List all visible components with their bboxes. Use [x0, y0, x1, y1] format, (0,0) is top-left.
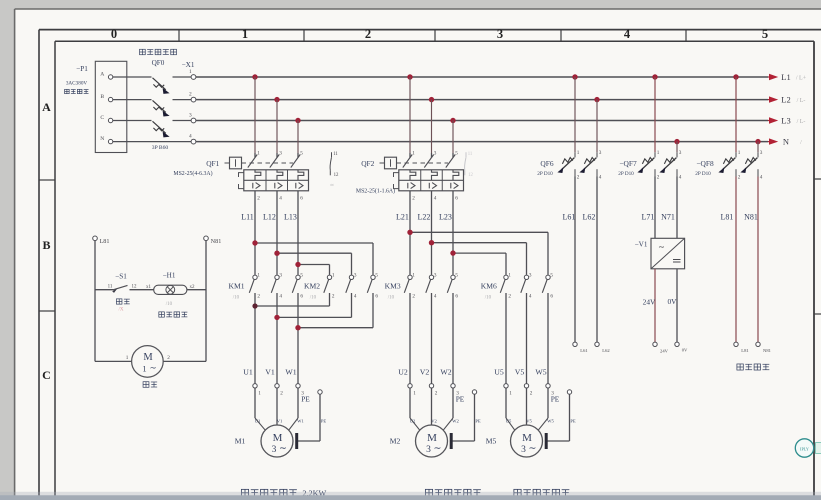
svg-text:C: C: [42, 368, 51, 382]
svg-text:12: 12: [468, 173, 473, 178]
svg-text:1: 1: [258, 390, 261, 396]
svg-text:V1: V1: [277, 419, 283, 424]
svg-text:3: 3: [521, 445, 526, 455]
svg-text:W1: W1: [285, 368, 296, 377]
svg-text:L11: L11: [241, 213, 254, 222]
svg-text:∼: ∼: [434, 444, 442, 454]
svg-text:3: 3: [599, 150, 602, 156]
svg-text:6: 6: [550, 294, 553, 300]
svg-text:V2: V2: [431, 419, 437, 424]
svg-text:6: 6: [375, 294, 378, 300]
svg-text:PE: PE: [551, 395, 560, 404]
svg-text:1: 1: [126, 355, 129, 361]
svg-text:3: 3: [272, 445, 277, 455]
svg-text:3: 3: [426, 445, 431, 455]
svg-text:V5: V5: [526, 419, 532, 424]
svg-text:4: 4: [189, 133, 192, 139]
svg-text:U2: U2: [410, 419, 416, 424]
svg-text:3: 3: [189, 112, 192, 118]
svg-text:W2: W2: [452, 419, 459, 424]
svg-text:L61: L61: [563, 213, 576, 222]
svg-text:A: A: [42, 100, 51, 114]
svg-text:/ L-: / L-: [797, 98, 806, 104]
svg-text:/10: /10: [310, 296, 317, 301]
svg-text:U5: U5: [494, 368, 504, 377]
svg-text:U2: U2: [398, 368, 408, 377]
svg-text:3: 3: [434, 151, 437, 157]
svg-text:0V: 0V: [682, 348, 688, 353]
svg-text:2: 2: [257, 294, 260, 300]
svg-text:QF6: QF6: [540, 159, 553, 168]
svg-text:B: B: [42, 238, 50, 252]
svg-text:W5: W5: [535, 368, 546, 377]
svg-text:PE: PE: [301, 395, 310, 404]
svg-text:5: 5: [550, 272, 553, 278]
svg-text:M: M: [143, 352, 153, 363]
svg-text:3: 3: [529, 272, 532, 278]
svg-text:2P D10: 2P D10: [695, 171, 711, 177]
svg-text:3: 3: [497, 27, 503, 41]
svg-text:5: 5: [455, 272, 458, 278]
svg-text:1: 1: [412, 272, 415, 278]
svg-text:−X1: −X1: [182, 61, 195, 69]
svg-text:4: 4: [434, 294, 437, 300]
svg-text:2: 2: [167, 355, 170, 361]
svg-text:W1: W1: [297, 419, 304, 424]
svg-text:L21: L21: [396, 213, 409, 222]
svg-text:L12: L12: [263, 213, 276, 222]
svg-text:L23: L23: [439, 213, 452, 222]
svg-text:L22: L22: [418, 213, 431, 222]
svg-text:L61: L61: [580, 348, 588, 353]
svg-text:A: A: [100, 71, 104, 77]
svg-text:3: 3: [760, 150, 763, 156]
svg-text:/X: /X: [119, 308, 124, 313]
svg-text:L62: L62: [583, 213, 596, 222]
svg-text:∼: ∼: [658, 243, 665, 252]
svg-text:L13: L13: [284, 213, 297, 222]
svg-text:4: 4: [599, 175, 602, 181]
svg-text:11: 11: [108, 285, 113, 290]
svg-text:/ L-: / L-: [797, 119, 806, 125]
svg-text:/10: /10: [166, 302, 173, 307]
svg-text:KM1: KM1: [228, 282, 244, 291]
svg-text:2: 2: [280, 390, 283, 396]
svg-text:PE: PE: [475, 419, 481, 424]
svg-text:U1: U1: [243, 368, 253, 377]
svg-text:1: 1: [657, 150, 660, 156]
svg-text:V2: V2: [420, 368, 430, 377]
svg-text:N: N: [100, 136, 104, 142]
svg-text:2: 2: [189, 91, 192, 97]
svg-text:1: 1: [508, 272, 511, 278]
svg-text:1: 1: [142, 364, 146, 374]
svg-text:−QF8: −QF8: [696, 159, 714, 168]
svg-text:2: 2: [577, 175, 580, 181]
svg-text:−H1: −H1: [163, 272, 176, 280]
svg-text:3: 3: [679, 150, 682, 156]
svg-text:M1: M1: [235, 437, 246, 446]
svg-text:11: 11: [468, 152, 473, 157]
svg-text:0: 0: [111, 27, 117, 41]
svg-text:L3: L3: [781, 116, 790, 126]
svg-text:2: 2: [657, 175, 660, 181]
svg-text:/10: /10: [233, 296, 240, 301]
svg-text:/10: /10: [388, 296, 395, 301]
svg-text:5: 5: [300, 151, 303, 157]
svg-text:−V1: −V1: [635, 241, 648, 249]
svg-text:L1: L1: [781, 72, 790, 82]
svg-text:1: 1: [509, 390, 512, 396]
svg-text:∼: ∼: [149, 363, 156, 373]
svg-text:1: 1: [189, 69, 192, 75]
svg-text:2: 2: [332, 294, 335, 300]
svg-text:2: 2: [412, 294, 415, 300]
svg-text:11: 11: [333, 152, 338, 157]
svg-text:3: 3: [279, 151, 282, 157]
svg-text:6: 6: [455, 294, 458, 300]
svg-text:1: 1: [242, 27, 248, 41]
svg-text:4: 4: [529, 294, 532, 300]
svg-text:5: 5: [375, 272, 378, 278]
svg-text:2P D10: 2P D10: [618, 171, 634, 177]
svg-text:3P B60: 3P B60: [152, 145, 169, 151]
svg-text:N71: N71: [661, 213, 675, 222]
svg-text:4: 4: [679, 175, 682, 181]
svg-text:V5: V5: [515, 368, 525, 377]
svg-text:W2: W2: [440, 368, 451, 377]
svg-text:2: 2: [435, 390, 438, 396]
svg-text:4: 4: [624, 27, 631, 41]
svg-text:2: 2: [257, 196, 260, 202]
svg-text:6: 6: [300, 196, 303, 202]
svg-text:2: 2: [365, 27, 371, 41]
svg-text:C: C: [100, 115, 104, 121]
svg-text:L2: L2: [781, 95, 790, 105]
svg-text:L62: L62: [602, 348, 610, 353]
svg-text:1: 1: [257, 151, 260, 157]
svg-text:L81: L81: [721, 213, 734, 222]
svg-text:3: 3: [434, 272, 437, 278]
svg-text:M: M: [522, 432, 532, 444]
svg-text:−QF7: −QF7: [619, 159, 637, 168]
svg-text:N81: N81: [211, 238, 222, 245]
svg-text:6: 6: [300, 294, 303, 300]
svg-text:−S1: −S1: [115, 273, 127, 281]
svg-text:24V: 24V: [643, 298, 656, 307]
svg-text:1: 1: [412, 151, 415, 157]
svg-text:N81: N81: [744, 213, 758, 222]
svg-text:U1: U1: [255, 419, 261, 424]
svg-text:2: 2: [530, 390, 533, 396]
svg-text:/ L+: / L+: [796, 76, 807, 82]
svg-text:B: B: [100, 94, 104, 100]
svg-text:−P1: −P1: [76, 65, 88, 73]
svg-text:24V: 24V: [660, 349, 669, 354]
svg-text:PE: PE: [321, 419, 327, 424]
svg-text:PE: PE: [570, 419, 576, 424]
svg-text:2: 2: [412, 196, 415, 202]
svg-text:3AC380V: 3AC380V: [66, 81, 88, 87]
svg-text:M5: M5: [486, 437, 497, 446]
svg-text:/10: /10: [485, 296, 492, 301]
svg-text:KM3: KM3: [385, 282, 401, 291]
svg-text:N81: N81: [763, 348, 772, 353]
svg-text:1: 1: [577, 150, 580, 156]
svg-text:0V: 0V: [667, 297, 677, 306]
svg-text:QF1: QF1: [206, 159, 219, 168]
svg-text:4: 4: [760, 175, 763, 181]
svg-text:KM6: KM6: [481, 282, 497, 291]
svg-text:6: 6: [455, 196, 458, 202]
svg-text:N: N: [783, 137, 789, 147]
svg-text:MS2-25(1-1.6A): MS2-25(1-1.6A): [356, 188, 395, 195]
svg-text:4: 4: [279, 196, 282, 202]
svg-text:4: 4: [354, 294, 357, 300]
svg-text:PE: PE: [456, 395, 465, 404]
svg-text:L71: L71: [642, 213, 655, 222]
svg-text:QF0: QF0: [152, 59, 165, 67]
svg-text:KM2: KM2: [304, 282, 320, 291]
svg-text:L81: L81: [100, 238, 110, 245]
svg-text:2P D10: 2P D10: [537, 171, 553, 177]
svg-text:W5: W5: [547, 419, 554, 424]
svg-text:12: 12: [334, 173, 339, 178]
svg-text:x1: x1: [146, 285, 152, 290]
svg-text:M2: M2: [390, 437, 401, 446]
svg-text:1: 1: [332, 272, 335, 278]
svg-text:2: 2: [738, 175, 741, 181]
svg-text:V1: V1: [265, 368, 275, 377]
svg-text:1: 1: [738, 150, 741, 156]
svg-text:3: 3: [279, 272, 282, 278]
svg-text:5: 5: [455, 151, 458, 157]
svg-text:QF2: QF2: [361, 159, 374, 168]
svg-text:M: M: [427, 432, 437, 444]
svg-text:2: 2: [508, 294, 511, 300]
svg-text:L81: L81: [741, 348, 749, 353]
svg-text:4: 4: [279, 294, 282, 300]
svg-text:5: 5: [300, 272, 303, 278]
svg-text:U5: U5: [506, 419, 512, 424]
svg-text:1: 1: [413, 390, 416, 396]
svg-text:3: 3: [354, 272, 357, 278]
svg-text:4: 4: [434, 196, 437, 202]
svg-text:12: 12: [132, 285, 138, 290]
svg-text:∼: ∼: [279, 444, 287, 454]
svg-text:M: M: [273, 432, 283, 444]
svg-text:MS2-25(4-6.3A): MS2-25(4-6.3A): [173, 170, 212, 177]
svg-text:∼: ∼: [529, 444, 537, 454]
svg-text:IPLY: IPLY: [800, 447, 809, 452]
svg-text:5: 5: [762, 27, 768, 41]
svg-text:1: 1: [257, 272, 260, 278]
